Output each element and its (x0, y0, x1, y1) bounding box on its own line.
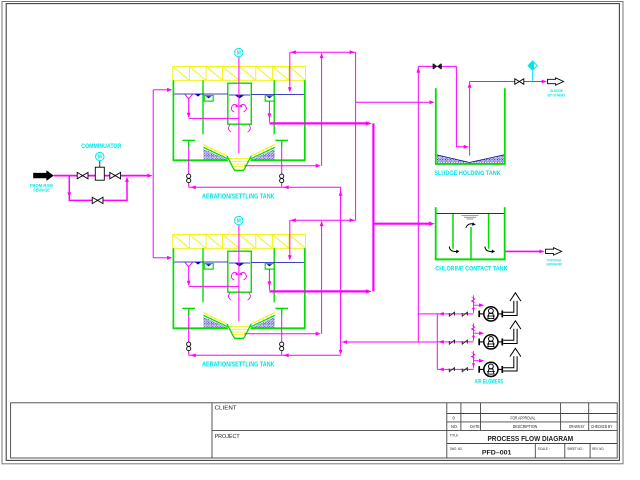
divider client box left edge (211, 403, 213, 458)
title block outline (11, 403, 618, 458)
blower B3 (437, 348, 521, 376)
water surface symbol (462, 216, 479, 219)
comminutor body (95, 167, 104, 180)
svg-text:PROJECT: PROJECT (215, 434, 241, 440)
svg-text:& BACKWASH PUMP: & BACKWASH PUMP (546, 263, 562, 267)
svg-text:SLUDGE HOLDING TANK: SLUDGE HOLDING TANK (434, 170, 500, 177)
mixing curls in clarifier (228, 104, 250, 132)
blower B2 (437, 321, 521, 349)
wire blower discharge header (342, 341, 438, 343)
air valve left (187, 174, 191, 178)
svg-text:TITLE: TITLE (450, 434, 459, 438)
svg-text:PFD–001: PFD–001 (482, 449, 512, 456)
wire tank inlet (153, 89, 168, 91)
valve on sludge outlet (515, 79, 524, 85)
aeration/settling tank no.2 (153, 216, 372, 368)
divider grid left edge (446, 403, 448, 458)
blower B1 (437, 293, 521, 321)
chemical feed diamond (527, 60, 537, 71)
wire air drop right (281, 147, 283, 174)
svg-text:CHECKED BY: CHECKED BY (591, 424, 613, 429)
wire sludge tank air riser (418, 66, 437, 342)
wire decant/sludge outlet line (470, 81, 543, 83)
to filter feed arrow (546, 248, 562, 255)
wire mixed liquor line (thick) (269, 122, 368, 124)
grid verticals bottom row (534, 444, 536, 459)
walkway hatched band (173, 67, 306, 81)
weir box right (265, 96, 274, 102)
valve V3 bypass (92, 197, 103, 203)
wire chlorine tank outlet (506, 250, 540, 252)
comminutor motor M (96, 152, 104, 160)
sludge tank sediment (437, 155, 504, 163)
svg-text:COMMINUATOR: COMMINUATOR (81, 143, 121, 150)
wire sludge drain from hopper (244, 165, 317, 167)
wire sludge drain standpipe (469, 82, 471, 156)
svg-text:PROCESS FLOW DIAGRAM: PROCESS FLOW DIAGRAM (487, 434, 573, 443)
svg-text:SCALE :: SCALE : (538, 447, 550, 451)
weir box left (204, 96, 213, 102)
sediment right (252, 149, 275, 159)
grid verticals upper (460, 403, 462, 431)
valve on sludge tank air line (433, 64, 442, 69)
wire bypass loop (69, 176, 127, 201)
svg-text:M: M (237, 51, 241, 57)
air diffuser T right (275, 140, 288, 147)
wire effluent weir drop (268, 101, 270, 122)
svg-text:M: M (98, 155, 102, 161)
svg-text:REV. NO.: REV. NO. (592, 447, 604, 451)
svg-text:SHEET NO. :: SHEET NO. : (567, 447, 584, 451)
water line (174, 94, 304, 95)
wire RAS return drop (289, 52, 291, 88)
sludge by others arrow (548, 78, 564, 85)
sediment left (204, 149, 227, 159)
water surface line (437, 213, 504, 215)
tank shell (173, 80, 306, 160)
wire sludge riser (321, 53, 323, 165)
motor M on tank (235, 48, 243, 56)
wire mixed liquor trunk (thick) (372, 123, 374, 291)
wire influent well distributor (185, 94, 239, 118)
svg-text:NO.: NO. (451, 424, 458, 429)
svg-text:DRAWN BY: DRAWN BY (569, 424, 585, 429)
valve V2 (110, 172, 121, 178)
air valve right (280, 174, 284, 178)
air diffuser T left (182, 140, 195, 147)
svg-text:AIR BLOWERS: AIR BLOWERS (475, 379, 504, 385)
wire WAS trunk (355, 52, 357, 220)
title block text (215, 406, 613, 457)
wire air header under tank (189, 186, 341, 188)
wire RAS/WAS header (290, 51, 356, 53)
wire sludge tank feed (356, 101, 431, 103)
influent arrow (from raw sewage) (33, 170, 54, 181)
svg-text:AERATION/SETTLING TANK: AERATION/SETTLING TANK (202, 193, 275, 200)
clarifier box (228, 83, 252, 124)
wire sludge tank top line (418, 65, 456, 67)
grid horizontals (447, 413, 617, 415)
wire chlorine tank inlet (thick) (373, 223, 429, 225)
wire center drive shaft (238, 57, 240, 153)
svg-text:DWG. NO.: DWG. NO. (450, 447, 463, 451)
wire air riser between tanks (340, 187, 342, 353)
wire main sewage line (54, 175, 149, 177)
wire sludge tank internal drop (456, 66, 465, 146)
wire influent trunk (152, 90, 154, 258)
valve V1 (77, 172, 88, 178)
svg-text:DATE: DATE (470, 424, 480, 429)
hopper slopes (203, 144, 275, 156)
wire air drop left (188, 147, 190, 174)
svg-text:SEWAGE: SEWAGE (33, 188, 50, 193)
flow arrows in chlorine tank (449, 224, 492, 252)
clarifier hopper funnel (228, 159, 250, 170)
svg-text:CHLORINE CONTACT TANK: CHLORINE CONTACT TANK (435, 265, 507, 272)
svg-text:CLIENT: CLIENT (215, 406, 238, 412)
svg-text:FOR APPROVAL: FOR APPROVAL (511, 415, 537, 420)
svg-text:BY OTHERS: BY OTHERS (548, 92, 566, 97)
svg-text:DESCRIPTION: DESCRIPTION (513, 424, 538, 429)
wire blower suction trunk (436, 314, 438, 370)
horizontal client/project divider (212, 429, 617, 431)
